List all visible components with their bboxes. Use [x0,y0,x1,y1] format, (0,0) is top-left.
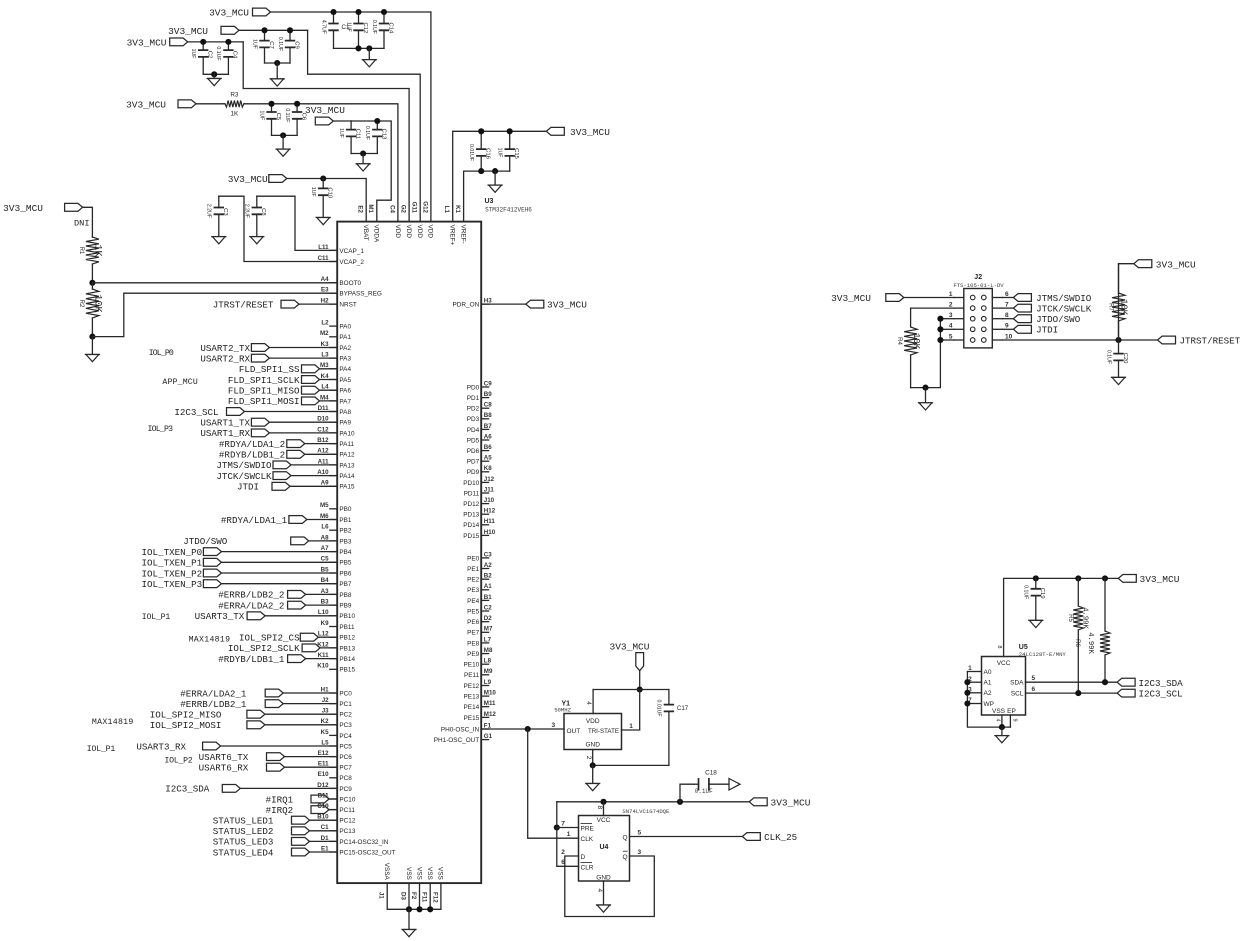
svg-text:PB9: PB9 [339,603,352,610]
svg-text:PB3: PB3 [339,538,352,545]
svg-text:STATUS_LED4: STATUS_LED4 [213,847,274,858]
svg-text:C11: C11 [354,129,360,139]
svg-text:B2: B2 [484,573,492,580]
svg-text:TRI-STATE: TRI-STATE [588,728,619,735]
svg-text:6: 6 [1032,686,1036,693]
svg-text:GND: GND [585,742,600,749]
svg-text:PE7: PE7 [467,630,480,637]
svg-text:9: 9 [1012,719,1018,722]
svg-text:M11: M11 [484,700,496,707]
svg-text:PA0: PA0 [339,324,351,331]
svg-text:IOL_TXEN_P1: IOL_TXEN_P1 [142,558,203,569]
svg-text:PA3: PA3 [339,356,351,363]
svg-text:L8: L8 [484,658,492,665]
svg-text:C4: C4 [232,51,238,59]
svg-text:PE1: PE1 [467,566,480,573]
svg-text:VDD: VDD [427,225,434,239]
svg-text:PA1: PA1 [339,334,351,341]
svg-text:VDD: VDD [394,225,401,239]
svg-text:A1: A1 [484,583,492,590]
svg-text:#RDYB/LDB1_1: #RDYB/LDB1_1 [218,654,285,665]
svg-text:JTMS/SWDIO: JTMS/SWDIO [216,460,272,471]
svg-text:1UF: 1UF [338,128,344,138]
svg-text:1K: 1K [92,244,103,256]
svg-text:C8: C8 [484,402,492,409]
svg-text:0.01UF: 0.01UF [468,144,474,161]
svg-text:JTDI: JTDI [237,482,259,493]
svg-text:M2: M2 [320,330,329,337]
svg-text:PB10: PB10 [339,613,355,620]
svg-text:#ERRA/LDA2_1: #ERRA/LDA2_1 [180,688,247,699]
svg-text:PB11: PB11 [339,624,355,631]
svg-text:5: 5 [1032,675,1036,682]
svg-text:C12: C12 [362,22,368,33]
svg-text:CLR: CLR [581,864,594,871]
svg-text:PE15: PE15 [464,715,480,722]
svg-text:1UF: 1UF [310,187,316,197]
svg-text:M5: M5 [320,502,329,509]
svg-text:3: 3 [637,849,641,856]
svg-text:L1: L1 [443,206,450,214]
svg-text:JTCK/SWCLK: JTCK/SWCLK [216,471,272,482]
svg-text:0.1UF: 0.1UF [277,37,283,51]
svg-text:PC13: PC13 [339,828,355,835]
svg-text:JTDO/SWO: JTDO/SWO [1036,314,1081,325]
svg-text:R4: R4 [896,337,902,345]
svg-text:1UF: 1UF [190,49,196,59]
svg-text:PE14: PE14 [464,704,480,711]
svg-text:NRST: NRST [339,302,356,309]
svg-text:BOOT0: BOOT0 [339,280,361,287]
svg-text:PD10: PD10 [463,480,479,487]
svg-text:PD13: PD13 [463,512,479,519]
svg-text:3: 3 [551,722,555,729]
svg-text:2: 2 [585,756,592,760]
svg-text:J12: J12 [484,476,495,483]
svg-text:3V3_MCU: 3V3_MCU [3,203,43,214]
svg-text:L2: L2 [321,320,329,327]
svg-text:I2C3_SDA: I2C3_SDA [1139,678,1184,689]
svg-text:VBAT: VBAT [362,225,369,241]
svg-text:I2C3_SCL: I2C3_SCL [1139,689,1183,700]
svg-text:CLK_25: CLK_25 [764,832,797,843]
svg-text:PE3: PE3 [467,587,480,594]
svg-text:U3: U3 [485,198,494,205]
svg-text:1UF: 1UF [251,39,257,49]
svg-text:PD5: PD5 [467,437,480,444]
svg-text:PB12: PB12 [339,635,355,642]
svg-text:PB8: PB8 [339,592,352,599]
svg-text:3V3_MCU: 3V3_MCU [168,26,208,37]
svg-text:IOL_P3: IOL_P3 [148,425,174,434]
svg-text:0.1UF: 0.1UF [1023,585,1029,599]
svg-text:IOL_P0: IOL_P0 [149,349,174,358]
svg-text:C2: C2 [207,51,213,59]
svg-text:STM32F412VEH6: STM32F412VEH6 [485,207,532,214]
svg-text:PH0-OSC_IN: PH0-OSC_IN [441,726,480,733]
svg-text:#ERRB/LDB2_2: #ERRB/LDB2_2 [218,590,284,601]
svg-text:10K: 10K [92,294,103,312]
svg-text:D3: D3 [399,892,406,900]
svg-text:PA6: PA6 [339,388,351,395]
svg-text:1UF: 1UF [258,110,264,120]
svg-text:1: 1 [629,723,633,730]
svg-text:C9: C9 [293,41,299,49]
svg-text:G1: G1 [484,733,493,740]
svg-text:M8: M8 [484,647,493,654]
svg-text:PD0: PD0 [467,384,480,391]
svg-text:USART3_RX: USART3_RX [136,741,186,752]
svg-text:FTS-105-01-L-DV: FTS-105-01-L-DV [953,282,1004,289]
svg-text:A5: A5 [484,455,492,462]
svg-text:A2: A2 [484,562,492,569]
svg-text:PC15-OSC32_OUT: PC15-OSC32_OUT [339,849,395,856]
svg-text:PH1-OSC_OUT: PH1-OSC_OUT [434,737,480,744]
svg-text:B6: B6 [484,444,492,451]
svg-text:VREF+: VREF+ [449,225,456,246]
svg-text:4: 4 [596,889,603,893]
svg-text:JTRST/RESET: JTRST/RESET [213,300,274,311]
svg-text:VREF-: VREF- [459,225,466,244]
svg-text:PA12: PA12 [339,452,355,459]
svg-text:SCL: SCL [1011,691,1024,698]
svg-text:B9: B9 [484,391,492,398]
svg-text:PC14-OSC32_IN: PC14-OSC32_IN [339,839,388,846]
svg-text:PE4: PE4 [467,598,480,605]
svg-text:PE10: PE10 [464,662,480,669]
svg-text:J1: J1 [378,892,385,899]
svg-text:JTDI: JTDI [1036,325,1058,336]
svg-text:FLD_SPI1_MISO: FLD_SPI1_MISO [228,386,300,397]
svg-text:#RDYB/LDB1_2: #RDYB/LDB1_2 [219,450,285,461]
svg-text:3V3_MCU: 3V3_MCU [1140,574,1180,585]
svg-text:PE5: PE5 [467,608,480,615]
svg-text:IOL_P1: IOL_P1 [142,613,171,622]
svg-text:3V3_MCU: 3V3_MCU [127,38,167,49]
svg-text:E2: E2 [357,205,364,213]
svg-text:FLD_SPI1_MOSI: FLD_SPI1_MOSI [228,396,300,407]
svg-text:C15: C15 [513,148,519,160]
svg-text:PC1: PC1 [339,701,352,708]
svg-text:PC6: PC6 [339,754,352,761]
svg-text:I2C3_SCL: I2C3_SCL [174,407,218,418]
svg-text:C8: C8 [260,208,266,216]
svg-text:PD4: PD4 [467,427,480,434]
svg-text:#ERRA/LDA2_2: #ERRA/LDA2_2 [218,600,284,611]
svg-text:4: 4 [995,719,1001,722]
svg-text:3V3_MCU: 3V3_MCU [1156,259,1196,270]
svg-text:J10: J10 [484,497,495,504]
svg-text:B1: B1 [484,594,492,601]
svg-text:PC3: PC3 [339,722,352,729]
svg-text:Q: Q [622,854,627,861]
svg-text:VDD: VDD [416,225,423,239]
svg-text:L9: L9 [484,679,492,686]
svg-text:IOL_TXEN_P3: IOL_TXEN_P3 [142,579,203,590]
svg-text:A6: A6 [484,433,492,440]
svg-text:PD6: PD6 [467,448,480,455]
svg-text:USART2_TX: USART2_TX [200,343,250,354]
svg-text:F11: F11 [421,892,428,903]
svg-text:U5: U5 [1019,644,1028,651]
svg-text:IOL_P1: IOL_P1 [87,745,116,754]
svg-text:C13: C13 [381,129,387,141]
svg-text:2.2UF: 2.2UF [206,204,212,218]
svg-text:PD7: PD7 [467,459,480,466]
svg-text:C19: C19 [1039,588,1045,599]
svg-text:1K: 1K [230,110,239,117]
svg-text:1: 1 [968,665,972,672]
svg-text:MAX14819: MAX14819 [92,718,133,727]
svg-text:IOL_TXEN_P0: IOL_TXEN_P0 [142,547,203,558]
svg-text:PA13: PA13 [339,462,355,469]
svg-text:PE11: PE11 [464,672,480,679]
svg-text:PC8: PC8 [339,775,352,782]
svg-text:0.1UF: 0.1UF [371,20,377,34]
svg-text:M9: M9 [484,668,493,675]
svg-text:PE12: PE12 [464,683,480,690]
svg-text:3V3_MCU: 3V3_MCU [547,300,587,311]
svg-text:4.99K: 4.99K [1080,607,1088,629]
svg-text:PE6: PE6 [467,619,480,626]
svg-text:OUT: OUT [567,728,581,735]
svg-text:3V3_MCU: 3V3_MCU [305,105,345,116]
svg-text:PD12: PD12 [463,501,479,508]
svg-text:PB14: PB14 [339,656,355,663]
svg-text:VSS: VSS [437,867,444,880]
svg-text:PD14: PD14 [463,522,479,529]
svg-text:K10: K10 [317,663,329,670]
svg-text:M7: M7 [484,626,493,633]
svg-text:VDD: VDD [405,225,412,239]
svg-text:C18: C18 [705,769,717,776]
svg-text:APP_MCU: APP_MCU [162,378,197,387]
svg-text:10K: 10K [911,333,921,350]
svg-text:USART2_RX: USART2_RX [200,353,250,364]
svg-text:PB4: PB4 [339,549,352,556]
svg-text:IOL_SPI2_MOSI: IOL_SPI2_MOSI [150,720,222,731]
svg-text:MAX14819: MAX14819 [189,636,230,645]
svg-text:USART6_TX: USART6_TX [199,752,249,763]
svg-text:I2C3_SDA: I2C3_SDA [165,784,210,795]
svg-text:PC5: PC5 [339,743,352,750]
svg-text:8: 8 [596,806,603,810]
svg-text:K8: K8 [484,465,492,472]
svg-text:PE2: PE2 [467,577,480,584]
svg-text:PE0: PE0 [467,555,480,562]
svg-text:5: 5 [637,829,641,836]
svg-text:K1: K1 [454,205,461,213]
svg-text:PC0: PC0 [339,690,352,697]
svg-text:L6: L6 [321,524,329,531]
svg-text:D: D [581,854,586,861]
svg-text:VCC: VCC [597,817,611,824]
svg-text:B8: B8 [484,412,492,419]
svg-text:DNI: DNI [74,219,89,229]
svg-text:PA15: PA15 [339,484,355,491]
svg-text:PA8: PA8 [339,409,351,416]
svg-text:PC12: PC12 [339,818,355,825]
svg-text:VCC: VCC [997,660,1011,667]
svg-text:4.7UF: 4.7UF [320,20,326,34]
svg-text:C3: C3 [222,208,228,216]
svg-text:R7: R7 [1108,303,1114,311]
svg-text:JTDO/SWO: JTDO/SWO [183,536,228,547]
svg-text:CLK: CLK [581,836,594,843]
svg-text:3V3_MCU: 3V3_MCU [610,641,650,652]
svg-text:G11: G11 [411,202,418,214]
svg-text:USART3_TX: USART3_TX [195,611,245,622]
svg-text:C5: C5 [275,113,281,121]
svg-text:#ERRB/LDB2_1: #ERRB/LDB2_1 [180,699,247,710]
svg-text:USART6_RX: USART6_RX [199,763,249,774]
svg-text:24LC128T-E/MNY: 24LC128T-E/MNY [1019,651,1067,658]
svg-text:R1: R1 [78,247,84,255]
svg-text:PC2: PC2 [339,712,352,719]
svg-text:H12: H12 [484,508,496,515]
svg-text:A2: A2 [984,690,992,697]
svg-text:K9: K9 [321,620,329,627]
svg-text:F2: F2 [410,892,417,900]
svg-text:U4: U4 [600,844,609,851]
svg-text:C3: C3 [484,551,492,558]
svg-text:IOL_SPI2_SCLK: IOL_SPI2_SCLK [228,643,300,654]
svg-text:VCAP_1: VCAP_1 [339,248,364,255]
svg-text:G12: G12 [421,201,428,213]
svg-text:2: 2 [561,849,565,856]
svg-text:FLD_SPI1_SS: FLD_SPI1_SS [239,364,300,375]
svg-text:C9: C9 [484,380,492,387]
svg-text:JTMS/SWDIO: JTMS/SWDIO [1036,293,1092,304]
svg-text:C2: C2 [484,604,492,611]
svg-text:3V3_MCU: 3V3_MCU [771,797,811,808]
svg-text:IOL_P2: IOL_P2 [165,757,193,766]
svg-text:PB7: PB7 [339,581,352,588]
svg-text:B7: B7 [484,423,492,430]
svg-text:J2: J2 [974,274,982,281]
svg-text:K5: K5 [321,729,329,736]
svg-text:0.1UF: 0.1UF [695,788,713,795]
svg-text:3V3_MCU: 3V3_MCU [831,293,871,304]
svg-text:PD2: PD2 [467,406,480,413]
svg-text:IOL_TXEN_P2: IOL_TXEN_P2 [142,568,203,579]
svg-text:A1: A1 [984,680,992,687]
svg-text:PC9: PC9 [339,786,352,793]
svg-text:D2: D2 [484,615,492,622]
svg-text:PE9: PE9 [467,651,480,658]
svg-text:C16: C16 [485,148,491,160]
svg-text:PB15: PB15 [339,667,355,674]
svg-text:C4: C4 [389,205,396,213]
svg-text:C20: C20 [1122,353,1128,365]
svg-text:H10: H10 [484,529,496,536]
svg-text:PDR_ON: PDR_ON [453,302,480,309]
svg-text:PD1: PD1 [467,395,480,402]
svg-text:PB1: PB1 [339,517,352,524]
svg-text:STATUS_LED1: STATUS_LED1 [213,816,274,827]
svg-text:L7: L7 [484,636,492,643]
svg-text:FLD_SPI1_SCLK: FLD_SPI1_SCLK [228,375,300,386]
svg-text:M12: M12 [484,711,497,718]
svg-text:PA7: PA7 [339,398,351,405]
svg-text:PB6: PB6 [339,570,352,577]
svg-text:PA11: PA11 [339,441,354,448]
svg-text:VSSA: VSSA [383,863,390,881]
svg-text:PB0: PB0 [339,506,352,513]
svg-text:VCAP_2: VCAP_2 [339,259,364,266]
svg-text:PC4: PC4 [339,733,352,740]
svg-text:50MHZ: 50MHZ [554,707,571,714]
svg-text:R3: R3 [230,91,239,98]
svg-text:G2: G2 [400,205,407,214]
svg-text:PD3: PD3 [467,416,480,423]
svg-text:R5: R5 [1067,614,1073,622]
svg-text:8: 8 [996,645,1002,648]
svg-text:0.01UF: 0.01UF [656,699,662,716]
svg-text:0.1UF: 0.1UF [215,46,221,60]
svg-text:VSS: VSS [992,708,1006,715]
svg-text:SDA: SDA [1010,680,1024,687]
svg-text:C10: C10 [327,187,333,199]
svg-text:H11: H11 [484,518,496,525]
svg-text:PD15: PD15 [463,533,479,540]
svg-text:PC10: PC10 [339,796,355,803]
svg-text:#RDYA/LDA1_1: #RDYA/LDA1_1 [221,515,288,526]
svg-text:STATUS_LED3: STATUS_LED3 [213,837,274,848]
svg-text:3V3_MCU: 3V3_MCU [209,8,249,19]
svg-text:USART1_RX: USART1_RX [200,428,250,439]
svg-text:R6: R6 [1074,639,1080,647]
svg-text:C14: C14 [387,22,393,34]
svg-text:VSS: VSS [415,867,422,880]
svg-text:R2: R2 [78,300,84,308]
svg-text:PA4: PA4 [339,366,351,373]
svg-text:4: 4 [585,701,592,705]
svg-text:PC11: PC11 [339,807,355,814]
svg-text:PRE: PRE [581,825,595,832]
svg-text:PA5: PA5 [339,377,351,384]
svg-text:3V3_MCU: 3V3_MCU [570,127,610,138]
svg-text:SN74LVC1G74DQE: SN74LVC1G74DQE [622,808,670,815]
svg-text:VDDA: VDDA [373,225,380,243]
svg-text:EP: EP [1007,708,1016,715]
svg-text:WP: WP [984,701,994,708]
svg-text:0.1UF: 0.1UF [1105,350,1111,364]
svg-text:#RDYA/LDA1_2: #RDYA/LDA1_2 [219,439,285,450]
svg-text:J11: J11 [484,486,495,493]
svg-text:IOL_SPI2_MISO: IOL_SPI2_MISO [150,710,222,721]
svg-text:C10: C10 [317,803,329,810]
svg-text:PA14: PA14 [339,473,355,480]
svg-text:C17: C17 [677,705,689,712]
svg-text:PE8: PE8 [467,640,480,647]
svg-text:PB5: PB5 [339,560,352,567]
svg-text:10K: 10K [1119,299,1129,316]
svg-text:PA9: PA9 [339,420,351,427]
svg-text:M1: M1 [367,204,374,213]
svg-text:F12: F12 [431,892,438,903]
svg-text:PC7: PC7 [339,765,352,772]
svg-text:STATUS_LED2: STATUS_LED2 [213,826,274,837]
svg-text:E10: E10 [318,771,330,778]
svg-text:7: 7 [561,820,565,827]
svg-text:3V3_MCU: 3V3_MCU [126,99,166,110]
svg-text:A0: A0 [984,669,992,676]
svg-text:PE13: PE13 [464,694,480,701]
svg-text:0.1UF: 0.1UF [284,108,290,122]
svg-text:1: 1 [567,831,571,838]
svg-text:VSS: VSS [426,867,433,880]
